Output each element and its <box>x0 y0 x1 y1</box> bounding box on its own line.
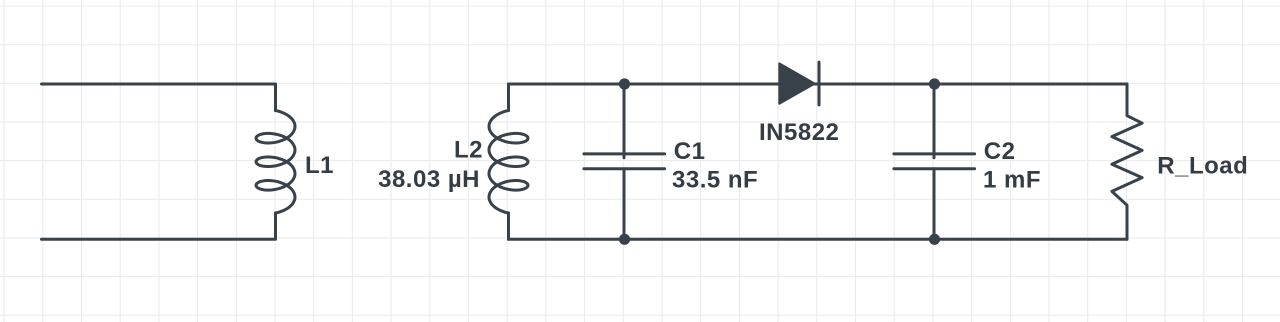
svg-text:33.5 nF: 33.5 nF <box>672 166 758 193</box>
wire bottom bus <box>509 238 1128 241</box>
svg-text:C2: C2 <box>984 138 1016 165</box>
wire input top segment <box>42 84 276 111</box>
junction node C2 bottom <box>929 234 940 245</box>
inductor L2 stub top <box>507 84 510 111</box>
svg-text:1 mF: 1 mF <box>983 166 1041 193</box>
junction node C2 top <box>929 78 940 89</box>
inductor L2 stub bottom <box>507 213 510 239</box>
svg-text:L2: L2 <box>454 136 483 163</box>
junction node C1 top <box>619 78 630 89</box>
svg-text:38.03 µH: 38.03 µH <box>378 166 480 193</box>
junction node C1 bottom <box>619 234 630 245</box>
resistor R_Load zigzag <box>1112 84 1142 239</box>
svg-text:C1: C1 <box>674 138 706 165</box>
wire input bottom segment <box>42 213 276 239</box>
capacitor C2 <box>933 84 936 158</box>
inductor L2 coil <box>489 111 528 214</box>
svg-text:R_Load: R_Load <box>1157 153 1248 180</box>
diode IN5822 anode triangle <box>779 63 814 103</box>
capacitor C1 <box>623 84 626 158</box>
diode IN5822 cathode bar <box>818 62 821 105</box>
svg-text:IN5822: IN5822 <box>759 119 839 146</box>
inductor L1 coil <box>256 111 295 214</box>
svg-text:L1: L1 <box>305 152 334 179</box>
wire top bus <box>509 83 1128 86</box>
